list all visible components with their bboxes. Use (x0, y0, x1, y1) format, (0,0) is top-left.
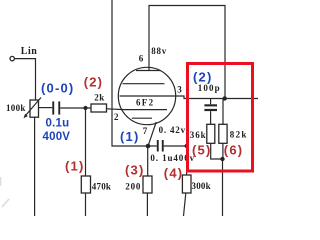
svg-text:3: 3 (177, 84, 182, 94)
svg-text:470k: 470k (92, 182, 111, 192)
svg-text:(4): (4) (164, 166, 184, 181)
svg-text:100p: 100p (198, 83, 221, 93)
svg-text:(2): (2) (84, 75, 104, 90)
svg-text:(5): (5) (192, 143, 212, 158)
svg-text:100k: 100k (6, 103, 26, 113)
svg-text:200: 200 (125, 182, 141, 192)
svg-text:0. 42v: 0. 42v (159, 125, 186, 135)
svg-text:2: 2 (114, 112, 119, 122)
svg-text:Lin: Lin (21, 46, 38, 57)
svg-text:(2): (2) (193, 70, 213, 85)
svg-text:300k: 300k (192, 181, 211, 191)
svg-text:6: 6 (139, 54, 144, 64)
svg-text:88v: 88v (151, 46, 167, 56)
svg-text:(6): (6) (224, 143, 244, 158)
svg-text:(0-0): (0-0) (41, 81, 74, 96)
svg-text:7: 7 (143, 126, 148, 136)
svg-text:82k: 82k (230, 130, 248, 140)
svg-text:6F2: 6F2 (136, 98, 154, 108)
svg-text:0.1u: 0.1u (46, 118, 70, 130)
svg-text:(1): (1) (120, 129, 140, 144)
svg-text:(3): (3) (125, 163, 145, 178)
svg-text:400V: 400V (43, 131, 71, 143)
svg-text:36k: 36k (190, 130, 207, 140)
svg-text:2k: 2k (94, 92, 105, 102)
svg-text:(1): (1) (65, 159, 85, 174)
